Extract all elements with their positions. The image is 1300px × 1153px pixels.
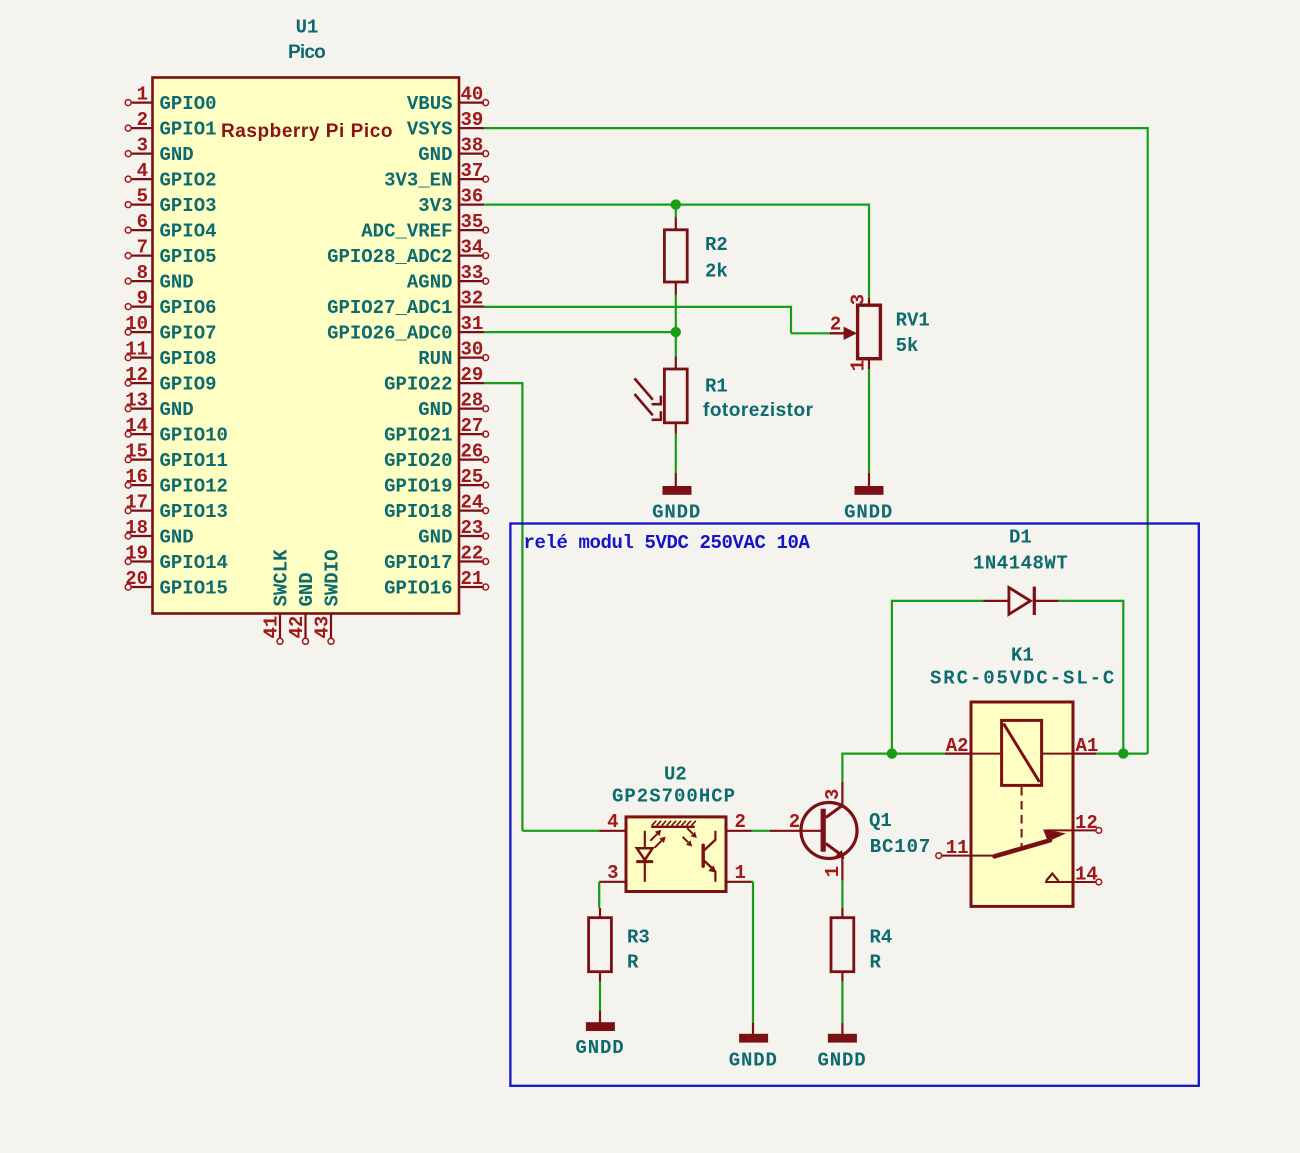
svg-text:2: 2 [735,811,746,833]
U2 pin 1 [726,862,752,884]
svg-text:GNDD: GNDD [575,1037,624,1059]
U1 pin 6 GPIO4 [125,211,216,242]
U1 pin 32 GPIO27_ADC1 [327,288,484,319]
U1 pin 16 GPIO12 [125,466,228,497]
svg-text:GPIO5: GPIO5 [160,246,217,268]
svg-text:GPIO2: GPIO2 [160,170,217,192]
svg-text:GPIO11: GPIO11 [160,450,228,472]
U1 pin 1 GPIO0 [125,84,216,115]
svg-text:1: 1 [137,84,148,106]
svg-text:24: 24 [461,492,484,514]
svg-text:GND: GND [160,272,194,294]
U1 pin 39 VSYS [407,109,484,140]
svg-text:SWCLK: SWCLK [270,549,292,607]
U1 pin 41 SWCLK [261,549,293,644]
svg-text:SWDIO: SWDIO [321,549,343,606]
U2 pin 2 [726,811,752,833]
K1 pin 14 contact [1045,864,1102,886]
svg-text:GPIO14: GPIO14 [160,552,228,574]
U1 pin 36 3V3 [418,186,484,217]
U1 pin 34 GPIO28_ADC2 [327,237,489,268]
svg-text:R2: R2 [705,234,728,256]
svg-text:13: 13 [125,390,148,412]
svg-text:14: 14 [1075,864,1098,886]
svg-text:GND: GND [418,399,452,421]
svg-text:5k: 5k [896,335,919,357]
svg-text:4: 4 [137,160,148,182]
wire GPIO26_ADC0 pin31 to R2/R1 node [484,331,676,333]
svg-text:R3: R3 [627,927,650,949]
potentiometer RV1 5k [830,294,930,371]
svg-text:12: 12 [125,364,148,386]
wire VSYS pin39 to relay A1 net [484,127,1148,754]
optocoupler U2 GP2S700HCP body [612,764,736,892]
svg-text:GNDD: GNDD [652,502,701,524]
U1 pin 28 GND [418,390,488,421]
U1 pin 4 GPIO2 [125,160,216,191]
svg-text:GPIO22: GPIO22 [384,374,452,396]
svg-text:30: 30 [461,339,484,361]
U1 pin 22 GPIO17 [384,543,489,574]
svg-text:GPIO12: GPIO12 [160,476,228,498]
svg-text:GND: GND [160,526,194,548]
svg-text:34: 34 [461,237,484,259]
U1 pin 25 GPIO19 [384,466,489,497]
junction diode cathode / A1 / VSYS [1118,748,1128,758]
U1 pin 27 GPIO21 [384,415,489,446]
svg-text:19: 19 [125,543,148,565]
svg-text:1: 1 [735,862,746,884]
svg-text:GPIO10: GPIO10 [160,425,228,447]
K1 pin A1 [1073,735,1098,757]
svg-text:3: 3 [822,789,844,800]
resistor R2 [664,205,727,333]
U1 pin 11 GPIO8 [125,339,216,370]
svg-text:25: 25 [461,466,484,488]
wire U2 pin2 to Q1 base [752,830,771,832]
U1 pin 43 SWDIO [312,549,344,644]
U1 pin 21 GPIO16 [384,568,489,599]
wire GPIO27_ADC1 pin32 to RV1 wiper [484,306,830,334]
svg-text:6: 6 [137,211,148,233]
U2 pin 3 [599,862,626,884]
svg-text:GPIO0: GPIO0 [160,93,217,115]
svg-text:37: 37 [461,160,484,182]
svg-text:GND: GND [296,572,318,606]
wire Q1 emitter to R4 [841,881,843,908]
svg-text:3V3_EN: 3V3_EN [384,170,452,192]
svg-text:GNDD: GNDD [844,502,893,524]
U1 pin 18 GND [125,517,194,548]
svg-text:12: 12 [1075,812,1098,834]
wire U2 pin1 to ground [752,882,754,1023]
wire diode anode branch [892,600,984,754]
K1 mechanical dashed link [1021,787,1023,849]
svg-text:SRC-05VDC-SL-C: SRC-05VDC-SL-C [930,668,1116,690]
junction R2/R1 node [671,327,681,337]
svg-text:GPIO3: GPIO3 [160,195,217,217]
svg-text:32: 32 [461,288,484,310]
U1 pin 5 GPIO3 [125,186,216,217]
U1 pin 38 GND [418,135,488,166]
U1 pin 26 GPIO20 [384,441,489,472]
svg-text:15: 15 [125,441,148,463]
svg-text:20: 20 [125,568,148,590]
wire diode cathode branch [1059,600,1124,754]
svg-text:GNDD: GNDD [817,1050,866,1072]
svg-text:U1: U1 [296,17,319,39]
svg-text:23: 23 [461,517,484,539]
relay K1 SRC-05VDC-SL-C body [930,645,1116,907]
svg-text:2: 2 [830,313,841,335]
svg-text:RV1: RV1 [896,310,930,332]
svg-text:GPIO20: GPIO20 [384,450,452,472]
U1 pin 33 AGND [407,262,489,293]
junction 3V3/R2 node [671,199,681,209]
svg-text:GPIO18: GPIO18 [384,501,452,523]
U2 phototransistor [703,831,716,882]
svg-text:fotorezistor: fotorezistor [703,400,814,421]
U1 pin 23 GND [418,517,488,548]
U1 pin 24 GPIO18 [384,492,489,523]
svg-text:GPIO8: GPIO8 [160,348,217,370]
U1 pin 10 GPIO7 [125,313,216,344]
svg-text:38: 38 [461,135,484,157]
resistor R3 [589,908,650,981]
svg-text:R: R [870,952,882,974]
svg-text:GNDD: GNDD [729,1050,778,1072]
U1 pin 29 GPIO22 [384,364,484,395]
svg-text:R1: R1 [705,376,728,398]
svg-text:4: 4 [607,811,618,833]
svg-text:22: 22 [461,543,484,565]
svg-text:27: 27 [461,415,484,437]
svg-text:33: 33 [461,262,484,284]
svg-text:2: 2 [137,109,148,131]
U1 pin 14 GPIO10 [125,415,228,446]
svg-text:3: 3 [607,862,618,884]
svg-text:GPIO15: GPIO15 [160,577,228,599]
svg-text:GPIO9: GPIO9 [160,374,217,396]
svg-text:Pico: Pico [288,42,325,63]
svg-text:GND: GND [418,144,452,166]
svg-text:GPIO17: GPIO17 [384,552,452,574]
svg-text:GPIO6: GPIO6 [160,297,217,319]
svg-text:35: 35 [461,211,484,233]
wire R4 to ground [841,981,843,1023]
svg-text:BC107: BC107 [870,836,932,858]
svg-text:36: 36 [461,186,484,208]
U1 reference label [296,17,319,39]
svg-text:GPIO7: GPIO7 [160,323,217,345]
svg-text:AGND: AGND [407,272,453,294]
K1 pin 11 [936,837,994,859]
transistor Q1 BC107 [770,782,931,881]
U2 reflector surface [651,821,696,827]
svg-text:29: 29 [461,364,484,386]
svg-text:GPIO28_ADC2: GPIO28_ADC2 [327,246,452,268]
svg-text:R: R [627,952,639,974]
svg-text:VSYS: VSYS [407,119,453,141]
svg-text:A1: A1 [1076,735,1099,757]
svg-text:5: 5 [137,186,148,208]
U2 internal LED [636,831,653,882]
svg-text:GPIO21: GPIO21 [384,425,452,447]
wire GPIO22 pin29 to U2 pin4 [484,382,599,831]
svg-text:Raspberry Pi Pico: Raspberry Pi Pico [221,121,393,142]
U2 light arrows LED to reflector [650,830,665,848]
svg-text:GND: GND [418,526,452,548]
ground GNDD under R4 [817,1023,866,1072]
svg-text:A2: A2 [946,735,969,757]
svg-text:GPIO4: GPIO4 [160,221,217,243]
U1 pin 31 GPIO26_ADC0 [327,313,484,344]
U1 pin 30 RUN [418,339,488,370]
U1 pin 42 GND [286,572,318,644]
svg-text:GPIO16: GPIO16 [384,577,452,599]
U1 pin 17 GPIO13 [125,492,228,523]
K1 pin A2 [945,735,971,757]
svg-text:GP2S700HCP: GP2S700HCP [612,786,736,808]
U1 pin 3 GND [125,135,194,166]
svg-text:14: 14 [125,415,148,437]
svg-text:GND: GND [160,144,194,166]
note rele modul 5VDC 250VAC 10A [524,532,811,554]
svg-text:RUN: RUN [418,348,452,370]
svg-text:28: 28 [461,390,484,412]
svg-text:R4: R4 [870,927,893,949]
U1 pin 19 GPIO14 [125,543,228,574]
svg-text:3: 3 [137,135,148,157]
svg-text:K1: K1 [1011,645,1034,667]
svg-text:41: 41 [261,616,283,639]
svg-text:3: 3 [848,294,870,305]
resistor R1 fotorezistor [635,332,814,473]
wire Q1 collector to K1 A2 [842,753,945,782]
svg-text:2: 2 [789,811,800,833]
svg-text:3V3: 3V3 [418,195,452,217]
RV1 wiper arrow pin 2 [830,332,844,334]
svg-text:GPIO13: GPIO13 [160,501,228,523]
svg-text:GND: GND [160,399,194,421]
wire RV1 pin1 to ground [868,369,870,473]
svg-text:7: 7 [137,237,148,259]
svg-text:26: 26 [461,441,484,463]
svg-text:11: 11 [946,837,969,859]
U1 text Raspberry Pi Pico [221,121,393,142]
svg-text:42: 42 [286,616,308,639]
U1 pin 35 ADC_VREF [361,211,488,242]
svg-text:40: 40 [461,84,484,106]
U2 pin 4 [599,811,626,833]
U1 pin 9 GPIO6 [125,288,216,319]
U1 pin 15 GPIO11 [125,441,228,472]
U1 value label Pico [288,42,325,63]
U2 light arrows reflector to transistor [683,828,697,846]
svg-text:GPIO19: GPIO19 [384,476,452,498]
U1 pin 40 VBUS [407,84,489,115]
svg-text:18: 18 [125,517,148,539]
resistor R4 [831,908,892,981]
K1 switch lever [995,829,1067,856]
svg-text:2k: 2k [705,261,728,283]
svg-text:10: 10 [125,313,148,335]
svg-text:GPIO27_ADC1: GPIO27_ADC1 [327,297,452,319]
svg-text:1N4148WT: 1N4148WT [973,553,1068,575]
wire A1 to junction [1096,752,1123,754]
svg-text:16: 16 [125,466,148,488]
wire 3V3 pin36 to R2 and RV1 [484,204,869,299]
diode D1 1N4148WT [973,527,1068,616]
ground GNDD under R3 [575,1011,624,1059]
svg-text:relé modul 5VDC 250VAC 10A: relé modul 5VDC 250VAC 10A [524,532,811,554]
svg-text:1: 1 [822,866,844,877]
svg-text:9: 9 [137,288,148,310]
svg-text:GPIO26_ADC0: GPIO26_ADC0 [327,323,452,345]
junction diode anode / A2 [887,748,897,758]
U1 pin 12 GPIO9 [125,364,216,395]
svg-text:43: 43 [312,616,334,639]
U1 pin 20 GPIO15 [125,568,228,599]
IC U1 Raspberry Pi Pico body [153,78,460,614]
svg-text:Q1: Q1 [869,810,892,832]
svg-text:1: 1 [848,360,870,371]
U1 pin 2 GPIO1 [125,109,216,140]
svg-text:U2: U2 [664,764,687,786]
ground GNDD under RV1 [844,473,893,524]
relay module boundary box [510,524,1198,1086]
svg-text:GPIO1: GPIO1 [160,119,217,141]
wire U2 pin3 to R3 [598,882,600,908]
U1 pin 7 GPIO5 [125,237,216,268]
U1 pin 37 3V3_EN [384,160,489,191]
K1 pin 12 [1046,812,1102,834]
svg-text:17: 17 [125,492,148,514]
svg-text:11: 11 [125,339,148,361]
wire R3 to ground [599,981,601,1011]
U1 pin 13 GND [125,390,194,421]
svg-text:31: 31 [461,313,484,335]
svg-text:8: 8 [137,262,148,284]
ground GNDD under U2 pin1 [729,1023,778,1072]
ground GNDD under R1 [652,473,701,524]
svg-text:21: 21 [461,568,484,590]
U1 pin 8 GND [125,262,194,293]
svg-text:ADC_VREF: ADC_VREF [361,221,452,243]
svg-text:D1: D1 [1009,527,1032,549]
svg-text:39: 39 [461,109,484,131]
svg-text:VBUS: VBUS [407,93,453,115]
K1 coil [971,720,1073,785]
